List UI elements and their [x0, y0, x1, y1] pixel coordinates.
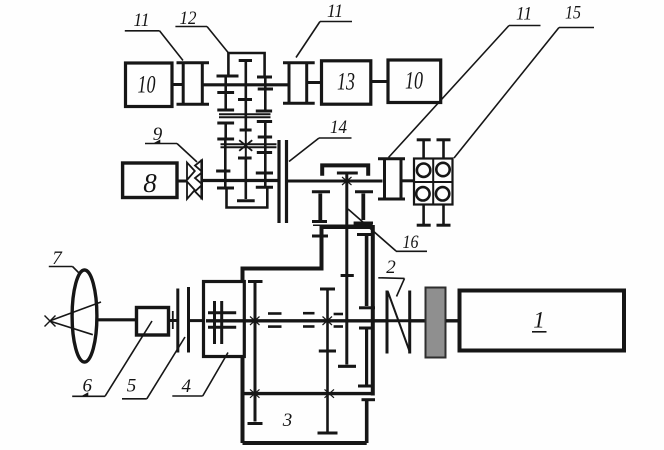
- block 15 (four-circle unit): [414, 159, 453, 205]
- wire: coupling to block 15: [402, 179, 414, 182]
- svg-text:11: 11: [327, 1, 343, 22]
- center cross at cone apex: [45, 316, 56, 327]
- shaft S1 (gearbox input): [204, 83, 289, 86]
- label 5 leader: [122, 398, 147, 400]
- label 6 leader with arrow: [72, 395, 105, 397]
- clutch 4 inner jaws: [208, 311, 236, 314]
- gearbox 12: sliding cross X on shaft S3: [239, 140, 252, 151]
- label 7 leader: [49, 266, 73, 268]
- wire: plates to clutch 4: [190, 319, 204, 322]
- coupling 11 (left): [177, 61, 210, 64]
- wire: box 13 to box 10: [371, 80, 388, 83]
- disc 14 (flywheel, two plates): [277, 140, 280, 223]
- vertical shaft mid cap: [341, 274, 354, 277]
- label 12 leader: [175, 26, 207, 28]
- feed column C upper I-beam: [357, 233, 373, 236]
- grinding wheel 7 (ellipse): [72, 270, 97, 362]
- wire: box10 to coupling 11: [172, 83, 183, 86]
- wire: belt to brake coupling: [410, 319, 425, 322]
- vertical shaft bottom cap: [338, 365, 356, 368]
- block 15 bottom stems: [422, 205, 425, 225]
- svg-text:7: 7: [52, 248, 63, 269]
- coupling 5 (two plates): [176, 289, 179, 353]
- shaft S4 (lower gearbox shaft): [203, 179, 278, 182]
- bearing tick: [172, 311, 174, 329]
- label 2 leader: [378, 277, 404, 280]
- belt drive 2: belt: [388, 292, 410, 353]
- label 11 leader (top middle): [320, 21, 352, 23]
- wire: box 8 to bevel gears: [177, 180, 187, 183]
- box 10 (left): [126, 63, 173, 107]
- vertical feed shaft (top cap): [337, 172, 358, 175]
- svg-text:11: 11: [516, 4, 532, 25]
- label 11 leader (top right): [509, 25, 541, 27]
- label 15 leader: [559, 27, 594, 29]
- housing 3 raised top (shaft S5 double line): [313, 224, 373, 226]
- gearbox housing 3 (stepped outline): [243, 227, 373, 443]
- motor 1: [460, 291, 625, 351]
- wire: brake to motor 1: [446, 319, 460, 322]
- svg-text:12: 12: [180, 8, 197, 29]
- feed column C below S7: [362, 398, 376, 401]
- vertical-shaft unit: bold top bracket: [322, 165, 368, 175]
- main spindle shaft S6 through clutch and housing: [206, 319, 373, 322]
- gear B on S6/S7 (middle column): [320, 288, 335, 291]
- label 11 leader (top left): [125, 30, 160, 32]
- tick marks at S4/vertical shaft crossing: [342, 177, 352, 185]
- box 6 (bearing block): [137, 308, 169, 336]
- gear A on S6 (tall, left): [248, 280, 263, 283]
- svg-text:13: 13: [337, 69, 355, 96]
- box 8: [123, 163, 177, 198]
- unit left gear: caps and thick line: [312, 190, 330, 193]
- unit right gear: caps and thick line: [355, 190, 373, 193]
- svg-text:16: 16: [403, 232, 419, 253]
- gearbox 12: right gear column caps: [257, 76, 272, 79]
- svg-text:11: 11: [134, 10, 150, 31]
- feed column C lower gear: [359, 327, 374, 330]
- spindle shaft: wheel to box 6: [97, 318, 137, 321]
- gearbox 12: right gear column verticals: [264, 78, 267, 88]
- wire: housing 3 to belt drive 2: [373, 319, 387, 322]
- gearbox 12: sliding block bracket: [228, 53, 264, 77]
- svg-text:3: 3: [282, 410, 293, 431]
- svg-text:9: 9: [153, 124, 163, 145]
- clutch 4 housing: [204, 282, 245, 357]
- bevel gear pair 9 (right half, three triangles with bar): [200, 160, 203, 200]
- belt drive 2: pulleys: [386, 291, 389, 354]
- gearbox 12: left gear column verticals: [224, 77, 227, 93]
- wheel center cone: [50, 302, 102, 321]
- cap below housing top: [312, 235, 328, 238]
- shaft S4 right of disc: [288, 180, 383, 183]
- svg-text:10: 10: [405, 68, 423, 95]
- label 14 leader: [319, 137, 352, 139]
- tick marks at gear crossings: [250, 317, 260, 326]
- svg-text:5: 5: [127, 376, 137, 397]
- svg-text:15: 15: [565, 3, 581, 24]
- box 10 (right): [388, 60, 441, 103]
- label 9 leader with arrow: [145, 143, 177, 145]
- label 1 underline: [532, 331, 547, 333]
- lower shaft S7 in housing: [243, 392, 375, 395]
- svg-text:14: 14: [330, 117, 347, 138]
- box 13: [322, 61, 371, 104]
- gearbox 12: center gear column verticals: [245, 62, 248, 98]
- gearbox 12: center gear column caps: [239, 59, 252, 62]
- svg-text:1: 1: [533, 308, 545, 333]
- vertical feed shaft: [345, 172, 348, 365]
- housing 3 bottom edge: [243, 441, 367, 445]
- svg-text:10: 10: [138, 72, 156, 99]
- label 4 leader: [172, 395, 202, 397]
- label 16 leader: [396, 250, 427, 252]
- wire between pulleys: [387, 319, 410, 322]
- svg-text:4: 4: [181, 376, 191, 397]
- coupling 11 (lower right): [378, 157, 405, 160]
- svg-text:8: 8: [143, 168, 157, 198]
- svg-text:2: 2: [386, 257, 396, 278]
- block 15 top stems: [422, 141, 425, 159]
- brake coupling (grey block): [426, 288, 446, 358]
- svg-text:6: 6: [83, 376, 93, 397]
- wire: coupling to box 13: [308, 81, 322, 84]
- bevel gear pair 9 (left half, two triangles): [187, 163, 195, 181]
- gearbox 12: lower bracket: [227, 188, 268, 207]
- shaft S2 (hollow, double line): [219, 113, 271, 115]
- wire: box to coupling plates: [169, 319, 178, 322]
- shaft S3 (hollow, double line): [221, 143, 277, 145]
- bearing dashes on S6: [268, 312, 282, 315]
- coupling 11 (right of gearbox): [283, 61, 315, 64]
- gearbox 12: left gear column caps: [217, 75, 239, 78]
